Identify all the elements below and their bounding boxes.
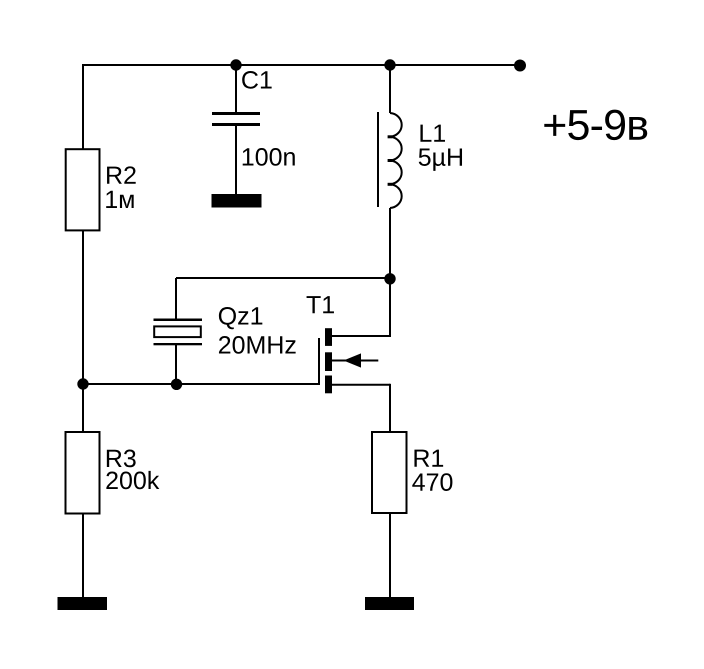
label C1 value 100n — [243, 148, 295, 166]
wire crystal top lead — [175, 278, 177, 319]
wire R1 to ground — [389, 513, 391, 598]
crystal Qz1 — [154, 319, 203, 346]
wire L1 top lead — [389, 65, 391, 113]
node junction at C1 top — [230, 59, 241, 70]
wire gate node down to R3 — [82, 384, 84, 432]
label R2 — [107, 166, 136, 183]
label power +5-9в — [544, 110, 647, 140]
resistor R3 — [66, 432, 100, 514]
wire left column top from rail to R2 — [82, 64, 84, 149]
wire C1 top lead — [235, 65, 237, 113]
label C1 — [242, 71, 271, 89]
transistor T1 — [319, 328, 378, 393]
node junction at L1 top — [384, 59, 395, 70]
wire crystal bottom lead — [175, 344, 177, 385]
label Qz1 value 20MHz — [219, 336, 296, 354]
node junction crystal bottom — [171, 379, 182, 390]
label L1 — [420, 125, 445, 142]
inductor L1 — [378, 112, 402, 208]
node junction gate net at R3 top — [77, 378, 88, 389]
resistor R1 — [372, 432, 407, 513]
wire gate row — [83, 383, 319, 385]
label L1 value 5µH — [419, 149, 462, 171]
wire L1 bottom to drain node — [389, 208, 391, 279]
ground under R1 — [365, 597, 414, 610]
wire drain vertical — [389, 278, 391, 337]
label R3 value 200k — [106, 471, 159, 489]
wire drain stub — [332, 335, 390, 337]
capacitor C1 — [212, 112, 260, 126]
wire crystal feedback top run — [176, 277, 390, 279]
label R1 value 470 — [412, 473, 452, 491]
ground under C1 — [212, 194, 262, 208]
resistor R2 — [66, 149, 100, 230]
node junction drain net — [384, 273, 395, 284]
node power supply terminal dot — [514, 60, 526, 72]
wire top power rail — [83, 64, 520, 66]
wire C1 bottom lead — [235, 126, 237, 195]
wire source down to R1 — [389, 384, 391, 432]
label R2 value 1м — [106, 191, 133, 208]
label R1 — [414, 450, 443, 467]
wire source stub — [332, 384, 390, 386]
label R3 — [107, 450, 136, 468]
ground under R3 — [58, 597, 108, 610]
label T1 — [307, 296, 334, 313]
label Qz1 — [219, 307, 262, 329]
wire R2 bottom to gate node — [82, 231, 84, 385]
wire R3 to ground — [82, 514, 84, 598]
